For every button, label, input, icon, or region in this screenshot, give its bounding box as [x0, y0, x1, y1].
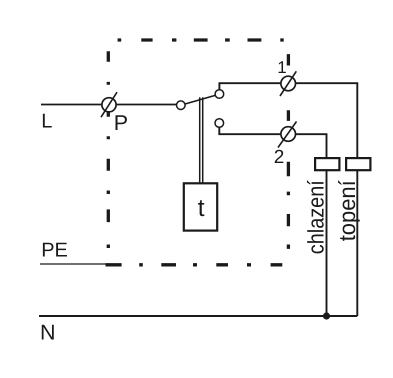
wire PE (protective earth line)	[40, 263, 108, 265]
mechanical link (double line) from switch to thermostat	[200, 97, 203, 183]
fuse chlazení (rectangle on wire)	[315, 158, 339, 170]
thermostat sensor t (box)	[184, 183, 217, 230]
svg-text:N: N	[40, 321, 56, 345]
switch upper contact (open circle)	[215, 90, 224, 99]
svg-text:topení: topení	[334, 180, 360, 242]
switch lower contact (open circle)	[215, 119, 224, 128]
switch common contact (open circle)	[177, 101, 186, 110]
wire from lower contact to output 2 and down to load chlazení	[219, 127, 326, 316]
wire from upper contact to output 1 and down to load topení	[219, 83, 357, 316]
svg-text:L: L	[41, 111, 52, 133]
enclosure dash-dot boundary top	[118, 38, 284, 41]
junction dot on N	[323, 312, 330, 319]
output terminal 1 (circle with slash)	[280, 71, 296, 96]
fuse topení (rectangle on wire)	[346, 158, 370, 170]
svg-text:chlazení: chlazení	[304, 180, 329, 255]
switch lever	[185, 95, 215, 104]
wire L (phase line)	[41, 104, 177, 106]
wire N (neutral line)	[39, 315, 357, 317]
control device P (circle with slash)	[101, 92, 117, 117]
enclosure dash-dot boundary right	[287, 54, 290, 249]
svg-text:t: t	[198, 195, 205, 222]
svg-text:PE: PE	[41, 239, 68, 261]
svg-text:1: 1	[277, 58, 286, 77]
svg-text:P: P	[114, 111, 128, 135]
enclosure dash-dot boundary left	[107, 51, 110, 248]
enclosure dash-dot boundary bottom	[106, 263, 283, 266]
svg-text:2: 2	[274, 147, 285, 168]
output terminal 2 (circle with slash)	[278, 122, 297, 148]
